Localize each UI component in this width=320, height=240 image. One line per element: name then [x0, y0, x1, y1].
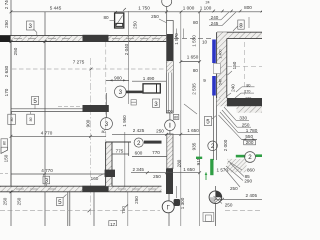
grid/dim line x124.8 lower: [124, 132, 126, 188]
dashed axis x105.8: [105, 42, 107, 142]
svg-text:1 570: 1 570: [174, 33, 179, 45]
svg-text:750: 750: [121, 206, 126, 214]
boxed 80 small: [173, 114, 178, 119]
dark stamp: [174, 199, 180, 206]
svg-text:150: 150: [232, 61, 237, 69]
svg-text:5: 5: [33, 98, 37, 105]
svg-text:540: 540: [218, 79, 222, 85]
svg-text:550: 550: [245, 134, 253, 139]
middle wall line: [11, 108, 83, 110]
label 3 box center: [153, 99, 160, 107]
svg-text:3: 3: [105, 121, 109, 128]
svg-text:2 345: 2 345: [132, 167, 144, 172]
dashed line bottom right: [225, 210, 262, 212]
svg-text:1 400: 1 400: [218, 49, 222, 58]
svg-text:900: 900: [85, 119, 90, 127]
svg-text:250: 250: [166, 110, 172, 114]
svg-text:250: 250: [230, 186, 238, 191]
svg-text:1 100: 1 100: [200, 6, 212, 11]
svg-text:800: 800: [244, 5, 252, 10]
dark band right: [227, 98, 262, 106]
left room verticals: [44, 42, 46, 187]
label 5 box bottom: [57, 198, 64, 206]
svg-text:2 535: 2 535: [192, 83, 197, 95]
right vertical wall hatched: [217, 32, 227, 104]
svg-text:250: 250: [13, 47, 18, 55]
svg-text:935: 935: [191, 142, 196, 150]
grid bubble 2 left: [134, 138, 143, 147]
svg-text:250: 250: [133, 21, 138, 29]
svg-text:250: 250: [17, 197, 22, 205]
blue window bars: [212, 40, 216, 64]
svg-text:1 650: 1 650: [183, 167, 195, 172]
svg-text:2: 2: [211, 143, 215, 150]
grid bubble 2 right: [245, 152, 256, 163]
svg-text:240: 240: [231, 84, 236, 92]
svg-text:1 490: 1 490: [143, 76, 155, 81]
jamb line right of column bottom: [175, 186, 177, 198]
svg-text:17: 17: [110, 222, 116, 226]
svg-text:9: 9: [203, 78, 206, 83]
top-left wall band: [0, 36, 167, 42]
label 3 box top-left: [27, 21, 35, 30]
svg-text:250: 250: [156, 128, 164, 133]
dark wall block bottom: [82, 186, 108, 192]
door gap in band: [162, 186, 167, 193]
dashed centerlines top right room: [244, 42, 246, 96]
svg-text:250: 250: [153, 174, 161, 179]
grid bubble 3 upper: [115, 86, 127, 98]
svg-text:80: 80: [29, 117, 33, 121]
svg-text:3: 3: [119, 89, 123, 96]
svg-text:250: 250: [151, 14, 159, 19]
shaft diagonal leaders: [224, 107, 236, 120]
label 8 box: [238, 20, 244, 29]
svg-text:250: 250: [2, 197, 7, 205]
svg-text:80: 80: [10, 117, 14, 121]
small detail box: [131, 100, 136, 105]
door lines right of column: [174, 38, 212, 40]
grid line x128.5: [128, 11, 130, 104]
X leaders: [214, 197, 222, 204]
svg-text:80: 80: [101, 130, 105, 134]
svg-text:2 630: 2 630: [4, 65, 9, 77]
svg-text:24: 24: [205, 1, 209, 5]
double wall lines below windows: [213, 96, 215, 161]
leader diagonal center: [184, 104, 197, 114]
boxed 80 a: [8, 114, 16, 124]
svg-text:4 770: 4 770: [41, 131, 53, 136]
svg-text:900: 900: [114, 75, 122, 80]
lower wall with hatch x105.5-112: [106, 142, 112, 186]
svg-text:200: 200: [246, 140, 254, 145]
svg-text:5: 5: [58, 199, 62, 206]
tick at x45 on band: [44, 40, 47, 43]
left dim vertical line: [10, 0, 12, 226]
label 3 box lower-left: [43, 176, 50, 184]
svg-text:7 275: 7 275: [73, 59, 85, 64]
dashed line y69: [12, 68, 166, 70]
svg-text:250: 250: [134, 196, 139, 204]
svg-text:80: 80: [193, 20, 199, 25]
svg-text:600: 600: [135, 150, 143, 155]
grid bubble 2 small: [208, 141, 218, 151]
svg-text:1 650: 1 650: [187, 128, 199, 133]
svg-text:1 550: 1 550: [192, 35, 197, 47]
boxed 80 b: [27, 114, 35, 124]
svg-text:4 770: 4 770: [41, 168, 53, 173]
svg-text:3: 3: [154, 101, 158, 108]
grid line x199.6: [199, 11, 201, 226]
svg-text:80: 80: [3, 141, 7, 145]
svg-text:Р: Р: [175, 201, 178, 206]
svg-text:170: 170: [4, 88, 9, 96]
black corner block: [0, 35, 11, 42]
bottom-left wall band: [0, 186, 167, 192]
grid bubble G bottom: [162, 201, 174, 213]
svg-text:2 000: 2 000: [223, 139, 228, 151]
svg-text:290: 290: [244, 178, 252, 183]
dark pier: [105, 170, 115, 177]
svg-text:775: 775: [116, 149, 124, 154]
svg-text:245: 245: [211, 21, 219, 26]
svg-text:8: 8: [239, 22, 243, 29]
svg-text:160: 160: [91, 176, 99, 181]
svg-text:5 445: 5 445: [50, 6, 62, 11]
label 17 box bottom: [109, 221, 117, 226]
svg-text:330: 330: [239, 116, 247, 121]
svg-text:1 650: 1 650: [187, 54, 199, 59]
top right wall band: [217, 32, 262, 38]
bottom rooms: [67, 192, 69, 226]
window detail box top: [115, 13, 124, 28]
svg-text:80: 80: [193, 68, 199, 73]
svg-text:240: 240: [211, 15, 219, 20]
svg-text:860: 860: [247, 168, 255, 173]
svg-text:2 040: 2 040: [124, 43, 129, 55]
hatch wedge bottom right: [227, 159, 247, 172]
wall line left room: [44, 12, 46, 36]
dark lintel: [144, 141, 162, 144]
level circle with wedge: [209, 191, 222, 204]
svg-text:1 300: 1 300: [180, 197, 185, 209]
svg-text:150: 150: [4, 154, 9, 162]
grid bubble top: [162, 0, 172, 7]
label 5 box: [32, 97, 39, 105]
grid line x180.8: [180, 11, 182, 226]
svg-text:280: 280: [176, 159, 181, 167]
svg-text:80: 80: [174, 116, 178, 120]
top dimension line: [11, 11, 262, 13]
left boxed 80 rotated: [1, 139, 8, 147]
svg-text:1 950: 1 950: [122, 115, 127, 127]
svg-text:10: 10: [202, 39, 208, 44]
dark wall block middle: [83, 105, 109, 112]
green level line: [196, 157, 202, 159]
svg-text:2 405: 2 405: [246, 193, 258, 198]
svg-text:2: 2: [137, 140, 141, 147]
svg-text:2 740: 2 740: [4, 0, 9, 9]
svg-text:1 000: 1 000: [183, 6, 195, 11]
svg-text:5: 5: [206, 119, 210, 126]
svg-text:80: 80: [103, 15, 109, 20]
small detail bottom: [203, 213, 214, 222]
svg-text:770: 770: [152, 150, 160, 155]
centerline x90.5: [90, 58, 92, 215]
svg-text:1 780: 1 780: [246, 128, 258, 133]
label 5 box right: [204, 117, 211, 126]
green vertical bar: [210, 159, 213, 175]
svg-text:1 750: 1 750: [138, 6, 150, 11]
svg-text:2 425: 2 425: [133, 128, 145, 133]
svg-text:250: 250: [225, 202, 233, 207]
svg-text:3: 3: [28, 23, 32, 30]
dark sill bar: [126, 91, 143, 94]
svg-text:250: 250: [4, 20, 9, 28]
dark wall block top: [83, 35, 109, 42]
svg-text:2: 2: [248, 154, 252, 161]
green tick arrow: [205, 173, 207, 181]
grid bubble 3 lower: [105, 112, 107, 118]
center column: [167, 21, 174, 114]
grid bubble B center: [165, 120, 176, 131]
